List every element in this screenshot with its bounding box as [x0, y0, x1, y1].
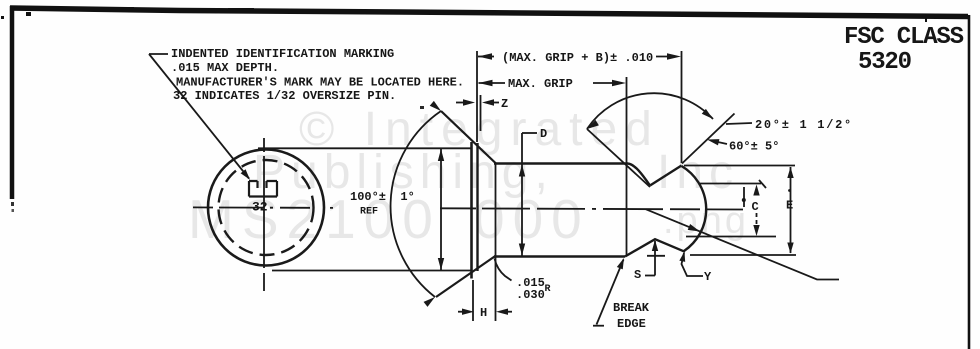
C extension break tick	[759, 180, 766, 188]
S crossing tick	[647, 255, 665, 257]
Y leader	[682, 253, 704, 276]
chamfer extension left slant	[587, 129, 650, 187]
border bump 2	[228, 8, 254, 11]
grip+B left arrow	[478, 53, 492, 59]
svg-text:FSC CLASS: FSC CLASS	[844, 24, 964, 51]
E top extension line	[684, 165, 795, 167]
border speck 1	[26, 12, 31, 16]
svg-text:60°± 5°: 60°± 5°	[729, 140, 779, 154]
stray speck near Z	[420, 106, 424, 109]
E label dot	[788, 189, 791, 192]
pintail bulb arc	[682, 166, 707, 251]
head front view outer circle	[208, 150, 324, 266]
grip+B right arrow	[667, 53, 681, 59]
C bottom extension line	[686, 236, 776, 238]
svg-text:.030: .030	[516, 288, 545, 302]
head dia arrow down	[438, 258, 444, 270]
bottom ridge rise	[625, 239, 685, 256]
svg-text:Z: Z	[501, 97, 508, 111]
svg-text:S: S	[634, 268, 641, 282]
S bracket	[645, 275, 655, 277]
H left arrow	[462, 309, 474, 315]
H left extension line	[472, 280, 474, 321]
60 degree arc	[587, 93, 713, 129]
H left arrow tail	[458, 311, 462, 313]
Z right arrow tail	[494, 102, 499, 104]
shank bottom line	[494, 255, 625, 258]
svg-text:32 INDICATES 1/32 OVERSIZE PIN: 32 INDICATES 1/32 OVERSIZE PIN.	[173, 89, 396, 103]
head diameter dimension line	[440, 149, 442, 270]
projection line bottom	[272, 270, 471, 272]
max grip right leader	[593, 82, 622, 84]
head front view inner dashed circle	[219, 160, 314, 255]
60 deg label arrow tail	[711, 141, 727, 145]
note leader dash	[149, 53, 168, 55]
svg-text:.015 MAX DEPTH.: .015 MAX DEPTH.	[171, 61, 279, 75]
svg-text:5320: 5320	[858, 49, 912, 76]
H right arrow	[496, 309, 508, 315]
S dimension stem	[654, 241, 656, 276]
C dashed stem	[756, 213, 758, 228]
page border right	[968, 15, 971, 349]
head cone top slant (extended)	[441, 111, 496, 164]
H right arrow tail	[508, 311, 512, 313]
shank top line	[494, 162, 628, 165]
diagonal arrowhead at bulb	[688, 224, 702, 234]
border fade dot 2	[12, 209, 15, 212]
svg-text:100°± 1°: 100°± 1°	[350, 190, 415, 204]
neck dip curve	[628, 164, 650, 186]
100 arc arrow bottom	[424, 294, 437, 306]
C arrow up	[753, 185, 759, 196]
60 arc arrow left	[585, 120, 599, 132]
page border left	[10, 6, 15, 199]
100 arc arrow top	[430, 101, 443, 114]
Y arrowhead	[679, 251, 687, 262]
border fade dot 1	[11, 202, 14, 206]
grip+B right extension line	[681, 51, 683, 163]
max grip right extension line	[626, 77, 628, 256]
break edge leader tail	[593, 325, 604, 327]
svg-text:EDGE: EDGE	[617, 317, 646, 331]
20 degree construction diagonal	[646, 209, 839, 279]
radius leader curve	[495, 259, 512, 281]
D arrow down	[519, 244, 525, 256]
max grip left arrow	[479, 80, 493, 86]
D dimension line	[521, 133, 523, 256]
identification marking box	[249, 181, 277, 197]
head cone bottom slant (extended)	[436, 256, 496, 298]
C auxiliary blob	[742, 198, 746, 202]
border tick	[925, 16, 927, 22]
60 arc arrow right	[702, 109, 715, 122]
Z right arrow	[482, 99, 494, 105]
svg-text:MAX. GRIP: MAX. GRIP	[508, 77, 573, 91]
grip+B right leader	[656, 56, 677, 58]
svg-text:MANUFACTURER'S MARK MAY BE LOC: MANUFACTURER'S MARK MAY BE LOCATED HERE.	[176, 76, 464, 90]
C top extension line	[700, 183, 761, 185]
break edge arrowhead	[617, 257, 627, 270]
border bump 1	[112, 7, 134, 10]
horizontal centerline left	[193, 206, 333, 209]
page border top	[10, 8, 968, 17]
vertical crosshair centerline	[263, 138, 265, 291]
svg-text:000: 000	[474, 188, 590, 250]
100 degree arc	[391, 111, 441, 297]
svg-text:E: E	[786, 199, 793, 213]
grip+B left arrow tail	[478, 56, 494, 58]
break edge chamfer line top	[650, 166, 682, 186]
E arrow down	[787, 243, 793, 254]
svg-text:20°± 1 1/2°: 20°± 1 1/2°	[755, 118, 853, 132]
E dimension line	[790, 167, 792, 253]
max grip right arrow	[612, 80, 626, 86]
horizontal centerline right	[440, 208, 744, 209]
svg-text:BREAK: BREAK	[613, 301, 650, 315]
Z second line	[480, 95, 482, 131]
head face inner line	[476, 143, 478, 271]
head face outer line	[470, 142, 473, 279]
svg-text:C: C	[752, 200, 759, 214]
E arrow up	[787, 167, 793, 178]
svg-text:Y: Y	[704, 270, 712, 284]
C auxiliary stem	[743, 187, 745, 207]
chamfer extension right slant	[682, 114, 735, 164]
svg-text:(MAX. GRIP + B)± .010: (MAX. GRIP + B)± .010	[502, 51, 653, 65]
border speck 2	[1, 16, 4, 19]
Z left arrow	[463, 99, 475, 105]
C arrow down	[753, 225, 759, 236]
border bump 3	[548, 11, 578, 14]
note leader line	[149, 54, 249, 179]
head-shank junction line + H extension	[495, 163, 497, 322]
grip+B left extension line	[476, 51, 478, 142]
Z left arrow tail	[456, 102, 463, 104]
svg-text:INDENTED IDENTIFICATION MARKIN: INDENTED IDENTIFICATION MARKING	[171, 47, 394, 61]
head dia arrow up	[438, 149, 444, 161]
S arrow up	[652, 240, 658, 251]
projection line top	[258, 147, 471, 149]
20 deg leader	[726, 123, 752, 124]
break edge leader	[597, 260, 624, 325]
E bottom extension line	[690, 254, 796, 256]
60 deg label arrow	[706, 136, 719, 145]
svg-text:D: D	[540, 127, 547, 141]
note leader arrowhead	[241, 169, 253, 182]
D arrow up	[519, 165, 525, 177]
max grip left arrow tail	[479, 82, 506, 84]
svg-text:R: R	[545, 284, 551, 295]
svg-text:H: H	[480, 306, 487, 320]
D leader jog	[522, 132, 537, 134]
svg-text:REF: REF	[360, 207, 378, 218]
